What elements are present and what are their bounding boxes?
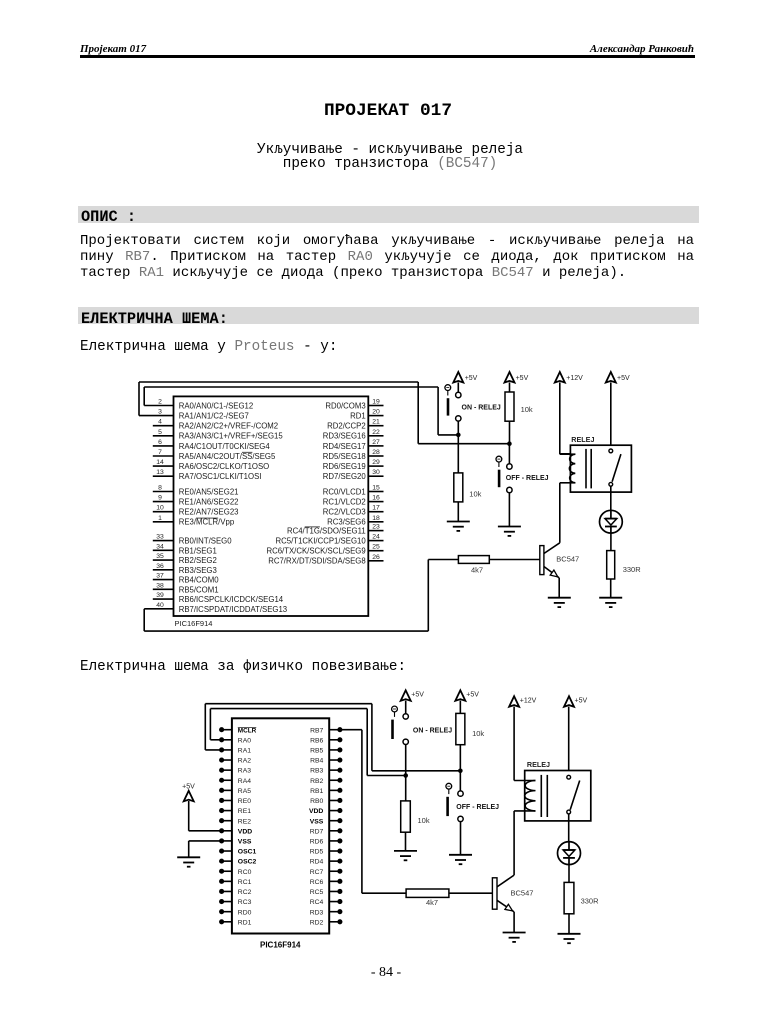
svg-text:RA3: RA3	[238, 768, 251, 775]
svg-text:RB1: RB1	[310, 788, 323, 795]
svg-text:23: 23	[372, 524, 380, 531]
svg-text:RB5/COM1: RB5/COM1	[179, 585, 219, 594]
svg-text:RB0: RB0	[310, 798, 323, 805]
svg-text:RB6: RB6	[310, 737, 323, 744]
svg-text:RD7: RD7	[310, 828, 324, 835]
svg-text:RA1: RA1	[238, 748, 251, 755]
svg-text:22: 22	[372, 429, 380, 436]
svg-text:RB4/COM0: RB4/COM0	[179, 576, 220, 585]
svg-text:RD3: RD3	[310, 909, 324, 916]
svg-text:+5V: +5V	[411, 692, 424, 699]
svg-text:RB1/SEG1: RB1/SEG1	[179, 546, 217, 555]
svg-text:RB3: RB3	[310, 768, 323, 775]
svg-text:17: 17	[372, 505, 380, 512]
svg-text:VSS: VSS	[238, 839, 252, 846]
svg-text:+5V: +5V	[466, 692, 479, 699]
svg-text:PIC16F914: PIC16F914	[175, 619, 213, 628]
svg-text:21: 21	[372, 419, 380, 426]
svg-text:RD2/CCP2: RD2/CCP2	[327, 422, 366, 431]
svg-text:RA3/AN3/C1+/VREF+/SEG15: RA3/AN3/C1+/VREF+/SEG15	[179, 432, 284, 441]
svg-text:4: 4	[158, 419, 162, 426]
svg-text:35: 35	[156, 553, 164, 560]
svg-text:19: 19	[372, 399, 380, 406]
svg-text:330R: 330R	[623, 565, 642, 574]
svg-text:RB5: RB5	[310, 748, 323, 755]
svg-text:RE1: RE1	[238, 808, 251, 815]
svg-text:37: 37	[156, 573, 164, 580]
svg-text:ON - RELEJ: ON - RELEJ	[413, 727, 452, 734]
svg-text:RD1: RD1	[350, 412, 366, 421]
svg-text:VSS: VSS	[310, 818, 324, 825]
svg-text:RD4: RD4	[310, 859, 324, 866]
svg-text:VDD: VDD	[238, 828, 252, 835]
svg-text:9: 9	[158, 495, 162, 502]
svg-text:RD5: RD5	[310, 849, 324, 856]
svg-text:6: 6	[158, 439, 162, 446]
svg-text:RE3/MCLR/Vpp: RE3/MCLR/Vpp	[179, 518, 235, 527]
svg-text:RD0/COM3: RD0/COM3	[325, 401, 365, 410]
svg-text:5: 5	[158, 429, 162, 436]
svg-text:RD2: RD2	[310, 919, 324, 926]
svg-text:OFF - RELEJ: OFF - RELEJ	[456, 804, 499, 811]
svg-text:+12V: +12V	[520, 697, 537, 704]
svg-text:RC1/VLCD2: RC1/VLCD2	[323, 498, 366, 507]
svg-text:28: 28	[372, 449, 380, 456]
svg-text:25: 25	[372, 544, 380, 551]
svg-text:RC1: RC1	[238, 879, 252, 886]
svg-text:RA5/AN4/C2OUT/SS/SEG5: RA5/AN4/C2OUT/SS/SEG5	[179, 452, 276, 461]
svg-text:OSC1: OSC1	[238, 849, 257, 856]
svg-text:+5V: +5V	[465, 375, 478, 382]
svg-text:RA2: RA2	[238, 758, 251, 765]
svg-text:2: 2	[158, 399, 162, 406]
svg-text:RB4: RB4	[310, 758, 323, 765]
svg-text:38: 38	[156, 582, 164, 589]
svg-text:40: 40	[156, 602, 164, 609]
svg-text:+5V: +5V	[575, 697, 588, 704]
svg-text:RB2/SEG2: RB2/SEG2	[179, 556, 217, 565]
svg-text:4k7: 4k7	[471, 566, 483, 575]
svg-text:3: 3	[158, 409, 162, 416]
svg-text:39: 39	[156, 592, 164, 599]
svg-text:RC3: RC3	[238, 899, 252, 906]
svg-text:10k: 10k	[472, 729, 484, 738]
svg-text:10k: 10k	[469, 489, 481, 498]
svg-text:20: 20	[372, 409, 380, 416]
svg-text:RE0/AN5/SEG21: RE0/AN5/SEG21	[179, 487, 239, 496]
svg-text:RB6/ICSPCLK/ICDCK/SEG14: RB6/ICSPCLK/ICDCK/SEG14	[179, 595, 284, 604]
svg-text:RD5/SEG18: RD5/SEG18	[323, 452, 366, 461]
svg-text:10: 10	[156, 505, 164, 512]
svg-text:27: 27	[372, 439, 380, 446]
svg-text:RC2: RC2	[238, 889, 252, 896]
svg-text:RB7: RB7	[310, 727, 323, 734]
svg-text:RC4/T1G/SDO/SEG11: RC4/T1G/SDO/SEG11	[287, 527, 366, 536]
svg-text:BC547: BC547	[556, 555, 579, 564]
svg-text:RA6/OSC2/CLKO/T1OSO: RA6/OSC2/CLKO/T1OSO	[179, 462, 270, 471]
svg-text:RC7/RX/DT/SDI/SDA/SEG8: RC7/RX/DT/SDI/SDA/SEG8	[268, 557, 365, 566]
svg-text:26: 26	[372, 554, 380, 561]
svg-text:1: 1	[158, 515, 162, 522]
svg-text:16: 16	[372, 495, 380, 502]
svg-text:RD4/SEG17: RD4/SEG17	[323, 442, 366, 451]
svg-text:RE2/AN7/SEG23: RE2/AN7/SEG23	[179, 508, 239, 517]
svg-text:8: 8	[158, 485, 162, 492]
svg-text:RA0/AN0/C1-/SEG12: RA0/AN0/C1-/SEG12	[179, 401, 254, 410]
svg-text:30: 30	[372, 469, 380, 476]
svg-text:RA1/AN1/C2-/SEG7: RA1/AN1/C2-/SEG7	[179, 412, 249, 421]
svg-text:24: 24	[372, 534, 380, 541]
svg-text:+5V: +5V	[516, 375, 529, 382]
svg-text:RD3/SEG16: RD3/SEG16	[323, 432, 366, 441]
svg-text:RB2: RB2	[310, 778, 323, 785]
svg-text:33: 33	[156, 534, 164, 541]
svg-text:14: 14	[156, 459, 164, 466]
svg-text:34: 34	[156, 543, 164, 550]
svg-text:RC6/TX/CK/SCK/SCL/SEG9: RC6/TX/CK/SCK/SCL/SEG9	[266, 547, 365, 556]
svg-text:RC7: RC7	[310, 869, 324, 876]
svg-text:330R: 330R	[581, 896, 600, 905]
svg-text:7: 7	[158, 449, 162, 456]
svg-text:RC5/T1CKI/CCP1/SEG10: RC5/T1CKI/CCP1/SEG10	[276, 537, 367, 546]
svg-text:10k: 10k	[521, 405, 533, 414]
svg-text:RE1/AN6/SEG22: RE1/AN6/SEG22	[179, 498, 239, 507]
svg-text:RELEJ: RELEJ	[571, 435, 594, 444]
svg-text:RC2/VLCD3: RC2/VLCD3	[323, 508, 366, 517]
svg-text:RB0/INT/SEG0: RB0/INT/SEG0	[179, 537, 233, 546]
svg-text:+5V: +5V	[617, 375, 630, 382]
svg-text:+5V: +5V	[182, 783, 195, 790]
svg-text:29: 29	[372, 459, 380, 466]
svg-text:PIC16F914: PIC16F914	[260, 940, 301, 949]
svg-text:RB3/SEG3: RB3/SEG3	[179, 566, 217, 575]
svg-text:RC0/VLCD1: RC0/VLCD1	[323, 487, 366, 496]
svg-text:RD0: RD0	[238, 909, 252, 916]
svg-text:RA2/AN2/C2+/VREF-/COM2: RA2/AN2/C2+/VREF-/COM2	[179, 422, 278, 431]
svg-text:VDD: VDD	[309, 808, 323, 815]
svg-text:18: 18	[372, 515, 380, 522]
svg-text:10k: 10k	[418, 816, 430, 825]
svg-text:OFF - RELEJ: OFF - RELEJ	[506, 475, 549, 482]
svg-text:RA0: RA0	[238, 737, 251, 744]
svg-text:RD7/SEG20: RD7/SEG20	[323, 472, 367, 481]
svg-text:15: 15	[372, 485, 380, 492]
svg-text:+12V: +12V	[566, 375, 583, 382]
svg-text:RELEJ: RELEJ	[527, 760, 550, 769]
svg-text:OSC2: OSC2	[238, 859, 257, 866]
svg-text:RD1: RD1	[238, 919, 252, 926]
svg-text:RC4: RC4	[310, 899, 324, 906]
svg-text:36: 36	[156, 563, 164, 570]
svg-text:RD6/SEG19: RD6/SEG19	[323, 462, 366, 471]
svg-text:4k7: 4k7	[426, 898, 438, 907]
svg-text:RA4: RA4	[238, 778, 251, 785]
svg-text:RA4/C1OUT/T0CKI/SEG4: RA4/C1OUT/T0CKI/SEG4	[179, 442, 271, 451]
svg-text:MCLR: MCLR	[238, 727, 257, 734]
svg-text:RC3/SEG6: RC3/SEG6	[327, 518, 366, 527]
svg-text:RC6: RC6	[310, 879, 324, 886]
svg-text:BC547: BC547	[511, 889, 534, 898]
svg-text:ON - RELEJ: ON - RELEJ	[462, 404, 501, 411]
svg-text:RD6: RD6	[310, 839, 324, 846]
svg-text:13: 13	[156, 469, 164, 476]
svg-text:RE0: RE0	[238, 798, 251, 805]
svg-text:RE2: RE2	[238, 818, 251, 825]
svg-text:RB7/ICSPDAT/ICDDAT/SEG13: RB7/ICSPDAT/ICDDAT/SEG13	[179, 605, 287, 614]
svg-text:RA7/OSC1/CLKI/T1OSI: RA7/OSC1/CLKI/T1OSI	[179, 472, 262, 481]
svg-text:RA5: RA5	[238, 788, 251, 795]
svg-text:RC0: RC0	[238, 869, 252, 876]
svg-text:RC5: RC5	[310, 889, 324, 896]
